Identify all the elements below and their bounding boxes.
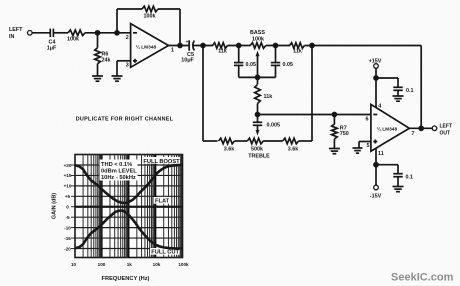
wire treble rail left xyxy=(203,140,218,142)
wire treble rail right xyxy=(299,140,312,142)
wire +15V to cap xyxy=(376,78,398,87)
wire C5 to rail xyxy=(193,45,213,47)
capacitor C4 xyxy=(47,29,57,52)
graph annotation FULL BOOST xyxy=(143,159,180,165)
node junction feedback xyxy=(115,31,119,35)
resistor 100k feedback xyxy=(142,6,158,19)
wire op1 output xyxy=(169,45,190,47)
resistor 11k left xyxy=(213,43,228,55)
resistor 100k input xyxy=(67,30,85,43)
terminal LEFT OUT xyxy=(432,126,437,131)
wire 11k to bass pot xyxy=(228,45,251,47)
resistor R6 24k xyxy=(95,33,111,76)
ground cap bottom xyxy=(393,187,404,192)
capacitor 0.1 bottom xyxy=(393,174,413,186)
terminal +15V xyxy=(369,58,382,68)
graph x-axis title xyxy=(102,276,150,282)
wiper arrow bass xyxy=(256,51,260,78)
wire feedback down xyxy=(179,9,181,46)
resistor 3.6k left xyxy=(219,138,235,152)
capacitor C5 10uF xyxy=(181,40,194,63)
wire 11k right to corner xyxy=(305,45,313,47)
wire pin 3 xyxy=(117,61,131,76)
node junction top rail right xyxy=(310,44,314,48)
resistor 11k middle xyxy=(255,77,273,114)
wire input to C4 xyxy=(32,32,49,34)
potentiometer TREBLE 500k xyxy=(247,138,270,159)
pin 6 label xyxy=(366,117,369,123)
wire pin 5 to ground xyxy=(359,142,371,148)
wire treble rail mid right xyxy=(263,140,282,142)
node output junction U2 xyxy=(419,126,423,130)
op-amp U1 quarter LM348 xyxy=(131,24,169,68)
curve full cut xyxy=(75,211,183,249)
node output junction U1 xyxy=(178,44,182,48)
node junction R6 xyxy=(96,31,100,35)
ground below R7 xyxy=(329,149,340,154)
resistor R7 750 xyxy=(332,115,349,149)
wire +15V down xyxy=(375,68,377,108)
node junction bass right xyxy=(274,44,278,48)
graph y-axis labels xyxy=(64,163,75,252)
graph y-axis title xyxy=(52,193,58,219)
node junction -15V xyxy=(374,163,378,167)
terminal -15V xyxy=(370,185,382,199)
wire R100k to pin 2 xyxy=(85,32,131,34)
resistor 11k right xyxy=(290,43,305,55)
pin 4 label xyxy=(378,104,381,110)
scan noise overlay xyxy=(0,0,1,1)
wire bass pot to 11k right xyxy=(266,45,290,47)
resistor 3.6k right xyxy=(283,138,299,152)
ground below R6 xyxy=(92,76,103,81)
node junction R7 xyxy=(332,113,336,117)
graph x-axis labels xyxy=(71,262,189,267)
wire right vertical to treble rail xyxy=(311,46,313,142)
graph annotation FLAT xyxy=(155,199,170,205)
node junction mid xyxy=(256,113,260,117)
node LEFT IN label xyxy=(9,27,23,40)
watermark SeekIC.com xyxy=(391,272,454,284)
potentiometer BASS 100k xyxy=(250,30,266,48)
wire treble rail mid left xyxy=(235,140,248,142)
graph label boxes xyxy=(100,157,181,255)
wire top rail to feedback corner xyxy=(312,45,421,47)
wire feedback top left xyxy=(117,8,142,10)
node LEFT OUT label xyxy=(440,124,453,137)
node junction top rail left xyxy=(201,44,205,48)
wire feedback top right xyxy=(158,8,180,10)
capacitor 0.1 top xyxy=(393,87,413,95)
ground pin 3 xyxy=(112,76,123,81)
wire mid to pin 6 xyxy=(258,114,371,116)
capacitor 0.05 left xyxy=(234,46,256,78)
graph annotation FULL CUT xyxy=(151,249,179,255)
ground cap top xyxy=(393,96,404,101)
graph grid xyxy=(75,155,183,258)
wiper arrow treble xyxy=(256,125,260,135)
ground pin 5 xyxy=(353,148,363,153)
node junction bass left xyxy=(237,44,241,48)
pin 2 label xyxy=(126,35,129,41)
capacitor 0.05 right xyxy=(271,46,293,78)
terminal LEFT IN xyxy=(28,31,33,36)
wire feedback right vertical xyxy=(420,46,422,129)
wire feedback up xyxy=(116,9,118,33)
note duplicate xyxy=(76,116,174,122)
wire -15V to cap xyxy=(376,165,398,174)
wire op2 output xyxy=(409,127,432,129)
wire pin 11 down xyxy=(375,148,377,185)
wire bass bottom rail xyxy=(239,76,276,78)
wire left vertical to treble rail xyxy=(202,46,204,142)
capacitor 0.005 xyxy=(253,115,280,129)
curve flat xyxy=(75,206,183,208)
curve full boost xyxy=(75,165,183,203)
pin 7 label xyxy=(412,131,415,137)
pin 3 label xyxy=(126,63,129,69)
pin 5 label xyxy=(367,143,370,149)
wire C4 to R 100k xyxy=(53,32,68,34)
pin 11 label xyxy=(378,151,384,157)
op-amp U2 quarter LM348 xyxy=(371,104,409,151)
pin 1 label xyxy=(171,48,174,54)
graph annotation THD xyxy=(101,162,137,181)
node junction +15V xyxy=(374,76,378,80)
node junction wiper xyxy=(256,75,260,79)
